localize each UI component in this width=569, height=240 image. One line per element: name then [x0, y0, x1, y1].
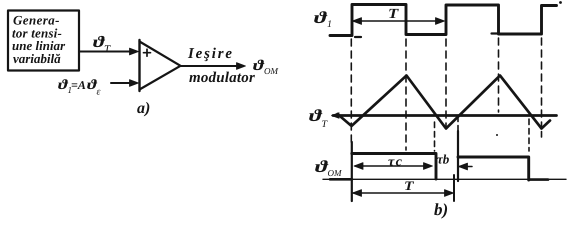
waveform label vOM: [315, 160, 342, 176]
waveform vT: triangle wave: [338, 76, 551, 129]
waveform label v1: [314, 11, 331, 27]
dashed line at rising edge 3: [541, 38, 543, 137]
tau-c dimension arrow: [354, 163, 433, 170]
net label vT: [93, 36, 111, 53]
wire: v1 input to comparator inverting input: [111, 82, 133, 84]
stray ink dot: [559, 1, 562, 4]
vOM pulse 2 rising edge: [457, 131, 459, 181]
label tau-b: [437, 154, 449, 163]
triangle wave time axis: [333, 114, 557, 117]
net label vOM: [253, 60, 278, 74]
pen overshoot at first rising edge: [355, 36, 361, 38]
dashed line at rising edge 1: [350, 39, 352, 142]
label modulator: [189, 72, 255, 83]
waveform vOM: pulse 1: [352, 154, 436, 180]
dashed line at falling edge 2: [498, 38, 500, 112]
dashed line at falling edge 1: [405, 39, 407, 150]
waveform vOM: pulse 2: [458, 157, 529, 180]
label T (bottom): [405, 181, 414, 190]
generator block text: [12, 16, 65, 63]
T interval right tick: [453, 175, 455, 201]
period T dimension arrow (top): [353, 18, 445, 25]
label T (top): [389, 9, 399, 18]
vOM baseline thick segments: [330, 178, 548, 181]
op-amp comparator U1: [140, 40, 181, 91]
label Iesire: [188, 48, 232, 62]
waveform v1: square wave: [330, 5, 557, 36]
sub-figure label b): [434, 203, 447, 218]
dashed line at pulse 2 rising edge: [457, 116, 459, 131]
vOM baseline: [323, 178, 566, 180]
label tau-c: [388, 159, 402, 165]
period T dimension arrow (bottom): [353, 190, 454, 197]
generator block box: [8, 11, 79, 71]
waveform label vT: [309, 109, 327, 127]
net label v1=Av_epsilon: [58, 79, 100, 94]
dashed line at pulse 1 falling edge: [434, 122, 436, 151]
wire: generator output to comparator noninverting input: [80, 51, 134, 53]
dashed line at rising edge 2: [445, 39, 447, 127]
sub-figure label a): [137, 102, 149, 117]
wire: comparator output: [181, 65, 241, 67]
pen overshoot at falling edge 2: [492, 32, 499, 34]
plus sign at top input: [144, 49, 151, 56]
dashed line at pulse 2 falling edge: [528, 119, 530, 151]
vOM pulse 1 rising edge with tick: [351, 142, 353, 201]
tau-b arrow from right: [459, 163, 473, 170]
stray ink speck: [496, 134, 498, 136]
